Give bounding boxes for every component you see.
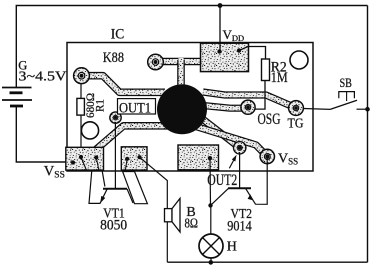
- pad OUT2 (stippled): [178, 145, 219, 170]
- transistor VT1 emitter wing: [89, 172, 107, 204]
- svg-text:OUT2: OUT2: [207, 172, 237, 189]
- wire bottom rail: [167, 261, 367, 263]
- wire pad1 dot c to VT1 emitter wing: [96, 158, 99, 172]
- wire pad2 dot a to VT1 collector wing: [125, 159, 127, 171]
- pad2 bottom-center (stippled): [121, 147, 147, 170]
- pad VDD (stippled): [201, 43, 249, 71]
- wire R2 to OSG ring: [254, 81, 265, 110]
- mounting hole below R1: [81, 122, 98, 139]
- trace T6: blob to pad ring1: [200, 117, 240, 148]
- svg-text:OUT1: OUT1: [119, 100, 151, 116]
- OUT1 ring pad: [110, 112, 121, 123]
- battery G: [2, 88, 32, 107]
- VT2 collector wire: [211, 188, 229, 205]
- wire node to lamp: [210, 205, 212, 234]
- mounting hole top right: [290, 51, 308, 69]
- transistor VT1 base bar: [103, 188, 127, 190]
- wire top rail from battery positive to right rail: [16, 6, 367, 88]
- trace T1: ring B to VDD pad with branch to blob: [160, 58, 203, 86]
- trace T7: blob to Vss ring2: [196, 127, 267, 157]
- speaker B cone: [172, 198, 180, 232]
- wire TG ring to switch: [303, 108, 330, 111]
- wire right rail: [367, 6, 369, 263]
- VT2 emitter wire with arrow to Vss ring2: [246, 188, 253, 199]
- junction dot collector node: [208, 203, 212, 207]
- wire OUT2 pad down to collector node: [209, 158, 212, 205]
- svg-text:TG: TG: [288, 117, 304, 132]
- solder dot pad2 b: [137, 155, 141, 159]
- OSG ring pad: [241, 100, 255, 114]
- resistor R2: [262, 59, 270, 81]
- wire VDD from top rail into pad: [219, 6, 221, 52]
- pad ring B (top, left of VDD): [148, 54, 164, 70]
- solder dot pad2 a: [125, 157, 129, 161]
- switch SB button cap: [339, 92, 355, 99]
- trace T3: blob to Vss pad1 lower-left, OUT1 ring on bend: [96, 126, 168, 150]
- switch SB arm: [331, 100, 358, 109]
- svg-text:H: H: [227, 240, 237, 255]
- wire VT2 base to ring1: [239, 152, 241, 188]
- transistor VT2 base bar: [228, 187, 251, 189]
- leader arrow OUT2 to ring1: [229, 160, 233, 168]
- pad1 Vss bottom-left (stippled): [66, 147, 104, 170]
- svg-text:K88: K88: [103, 50, 124, 66]
- junction dot top rail / VDD: [218, 3, 223, 8]
- pad ring1 (OUT2 pin): [234, 142, 246, 154]
- trace T4: blob to TG ring: [203, 92, 296, 108]
- junction dot bottom rail: [209, 260, 214, 265]
- label OUT2: [206, 174, 239, 186]
- svg-text:IC: IC: [111, 26, 125, 42]
- TG ring pad: [289, 101, 304, 116]
- solder dot pad1 b: [79, 155, 83, 159]
- pad ring A (top left): [74, 68, 90, 84]
- wire pad1 dot b to VT1 emitter wing: [81, 157, 87, 171]
- wire VDD pad to R2: [239, 47, 266, 60]
- speaker B magnet: [165, 209, 173, 222]
- trace T5: blob to OSG ring: [203, 106, 248, 109]
- label OUT1 (boxed): [118, 99, 156, 114]
- solder dot VDD pad right: [237, 48, 241, 52]
- VT1 emitter arrow: [100, 196, 105, 203]
- wire VT1 base to OUT1 ring: [114, 122, 116, 189]
- svg-text:8Ω: 8Ω: [185, 217, 199, 232]
- resistor R1: [77, 98, 85, 115]
- svg-text:R1: R1: [93, 99, 107, 112]
- svg-text:8050: 8050: [100, 217, 127, 233]
- solder dot VDD pad left: [217, 49, 221, 53]
- switch SB fixed contact: [357, 108, 368, 110]
- wire pad2 to speaker: [140, 157, 168, 208]
- solder dot OUT2 pad: [208, 156, 212, 160]
- wire lamp to bottom rail: [210, 258, 212, 262]
- solder dot pad1 a: [71, 160, 75, 164]
- svg-text:1M: 1M: [271, 70, 288, 86]
- junction dot switch / right rail: [365, 107, 370, 112]
- svg-text:9014: 9014: [227, 219, 252, 235]
- circuit board outline: [67, 43, 313, 172]
- svg-text:3~4.5V: 3~4.5V: [19, 70, 67, 85]
- IC chip blob (COB): [157, 84, 207, 134]
- trace T2: pad ring A to blob (upper left): [84, 76, 165, 93]
- transistor VT1 collector wing: [123, 172, 148, 204]
- wire speaker to bottom rail: [166, 222, 168, 262]
- lamp H: [199, 234, 223, 258]
- svg-text:SB: SB: [340, 76, 353, 90]
- resistor R1 leads: [80, 83, 82, 98]
- svg-text:OSG: OSG: [258, 111, 281, 128]
- pad ring2 (Vss pin): [260, 149, 274, 163]
- solder dot pad1 c: [94, 155, 98, 159]
- wire battery negative to Vss pad: [16, 106, 66, 162]
